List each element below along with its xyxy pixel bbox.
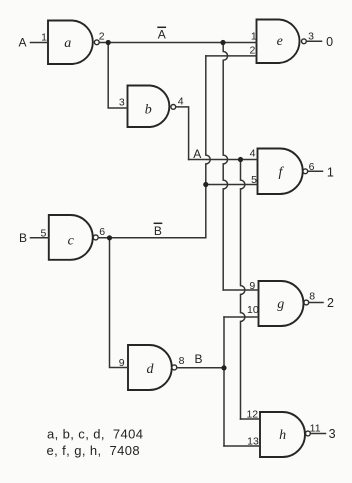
wire B input (31, 237, 49, 239)
bubble a (94, 40, 99, 45)
svg-text:d: d (147, 362, 155, 377)
wire a-out branch down to b (108, 43, 127, 109)
wire g output (309, 302, 323, 304)
junction B line (221, 365, 226, 370)
svg-text:e: e (277, 34, 283, 49)
wire h pin13 from B bus (224, 445, 260, 447)
svg-text:4: 4 (178, 96, 184, 108)
svg-text:B: B (194, 352, 202, 366)
wire c branch down to d (110, 238, 129, 368)
wire A input (31, 42, 49, 44)
wire h pin12 from A bus (241, 418, 261, 420)
wire Bbar bus vertical (206, 56, 210, 238)
svg-text:9: 9 (119, 357, 125, 369)
svg-text:3: 3 (308, 31, 314, 43)
wire h output (310, 433, 325, 435)
wire g pin9 from Abar bus (223, 289, 258, 291)
svg-text:13: 13 (247, 436, 259, 448)
gate d body (128, 345, 172, 390)
svg-text:6: 6 (309, 161, 315, 173)
svg-text:1: 1 (251, 31, 257, 43)
svg-text:12: 12 (246, 408, 258, 420)
svg-text:2: 2 (327, 296, 334, 310)
svg-text:9: 9 (249, 280, 255, 292)
gate c body (49, 215, 93, 260)
svg-text:5: 5 (251, 174, 257, 186)
svg-text:A: A (18, 35, 26, 49)
svg-text:b: b (145, 103, 152, 118)
svg-text:5: 5 (40, 227, 46, 239)
svg-text:8: 8 (309, 291, 315, 303)
junction a-out (106, 40, 111, 45)
svg-text:a: a (64, 36, 71, 51)
svg-text:g: g (277, 297, 284, 312)
bubble h (306, 431, 311, 436)
bubble g (304, 300, 309, 305)
svg-text:e, f, g, h, 7408: e, f, g, h, 7408 (47, 443, 141, 458)
svg-text:3: 3 (119, 97, 125, 109)
svg-text:4: 4 (250, 148, 256, 160)
svg-text:B: B (19, 231, 27, 245)
junction A line (238, 157, 243, 162)
wire f output (308, 170, 323, 172)
wire e pin2 from Bbar bus (206, 55, 257, 57)
wire Bbar line from c (98, 237, 206, 239)
junction Abar (220, 40, 225, 45)
wire A bus vertical with hops (241, 160, 245, 420)
bubble b (171, 105, 176, 110)
gate b body (128, 86, 170, 128)
gate a body (48, 21, 93, 65)
bubble e (302, 39, 307, 44)
svg-text:2: 2 (99, 31, 105, 43)
junction Bbar bus (203, 182, 208, 187)
svg-text:6: 6 (99, 226, 105, 238)
gate e body (257, 20, 300, 64)
wire Abar bus vertical with hops (223, 43, 227, 291)
svg-text:1: 1 (41, 32, 47, 44)
bubble d (172, 365, 177, 370)
wire d out B line (177, 367, 224, 369)
svg-text:h: h (279, 428, 286, 443)
gate g body (259, 281, 304, 326)
svg-text:A: A (193, 147, 201, 161)
wire Abar line to e pin1 (99, 42, 256, 44)
svg-text:2: 2 (249, 45, 255, 57)
junction Bbar line (107, 235, 112, 240)
svg-text:B: B (154, 224, 162, 238)
wire A line to f pin4 (189, 159, 258, 161)
gate f body (258, 149, 303, 195)
wire b-out down to A line (176, 107, 189, 160)
svg-text:A: A (158, 27, 166, 41)
wire g pin10 from B bus (224, 316, 259, 318)
svg-text:a, b, c, d, 7404: a, b, c, d, 7404 (47, 427, 143, 442)
wire B bus vertical (223, 317, 225, 446)
svg-text:c: c (68, 233, 75, 248)
svg-text:8: 8 (179, 355, 185, 367)
wire e output (306, 40, 321, 42)
bubble f (303, 169, 308, 174)
gate h body (260, 412, 305, 457)
svg-text:1: 1 (327, 166, 334, 180)
wire f pin5 from Bbar bus (206, 184, 258, 186)
bubble c (93, 235, 98, 240)
svg-text:3: 3 (329, 427, 336, 441)
svg-text:11: 11 (310, 423, 321, 435)
svg-text:10: 10 (247, 304, 259, 316)
svg-text:0: 0 (326, 35, 333, 49)
